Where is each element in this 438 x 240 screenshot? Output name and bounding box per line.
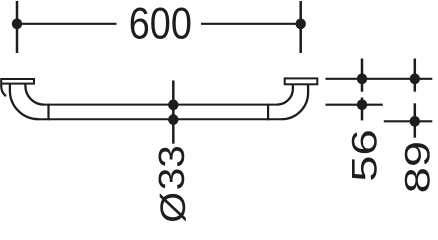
dot wall line right <box>410 73 420 84</box>
wall reference line (right) <box>326 78 433 80</box>
left tube joint line <box>47 104 49 121</box>
left elbow inner edge <box>25 85 44 105</box>
dimension 56 line at bar top level <box>326 104 383 106</box>
left flange cone edge at image border <box>1 85 6 97</box>
right elbow outer edge <box>282 85 309 120</box>
dot 89 line <box>410 116 420 127</box>
tick through wall line at x 362 <box>361 59 364 92</box>
svg-text:600: 600 <box>129 0 192 48</box>
diameter 33 bottom dot on bar bottom edge <box>168 114 178 125</box>
tick through 89 line <box>414 103 417 137</box>
dimension 600: right dimension line segment <box>201 23 301 25</box>
dimension 600: left arrow dot <box>12 18 22 29</box>
tick through wall line at x 414.8 <box>414 59 417 92</box>
dot wall line left <box>357 73 367 84</box>
svg-text:56: 56 <box>344 129 384 182</box>
left wall flange plate <box>1 79 34 84</box>
label 89 (rotated) <box>397 141 437 194</box>
label diameter 33: diameter symbol (rotated) <box>153 192 192 223</box>
grab bar tube bottom edge <box>38 118 282 120</box>
tick through 56 line <box>361 98 364 121</box>
diameter 33 leader line through bar <box>172 81 175 144</box>
right elbow inner edge <box>277 85 293 105</box>
right tube joint line <box>267 104 269 121</box>
right wall flange plate <box>285 78 318 84</box>
svg-text:89: 89 <box>397 141 437 194</box>
dimension 89 line at bar bottom level <box>384 120 433 122</box>
svg-text:33: 33 <box>152 145 192 190</box>
label 600 <box>129 0 192 48</box>
label 56 (rotated) <box>344 129 384 182</box>
diameter 33 top dot on bar top edge <box>168 100 178 111</box>
label diameter 33: value 33 (rotated) <box>152 145 192 190</box>
svg-text:Ø: Ø <box>153 192 192 223</box>
left elbow outer edge <box>10 85 39 120</box>
grab bar tube top edge <box>44 104 278 106</box>
dot 56 line <box>357 99 367 110</box>
dimension 600: left extension tick <box>16 1 19 53</box>
dimension 600: left dimension line segment <box>17 23 117 25</box>
dimension 600: right arrow dot <box>296 18 306 29</box>
dimension 600: right extension tick <box>299 1 302 53</box>
